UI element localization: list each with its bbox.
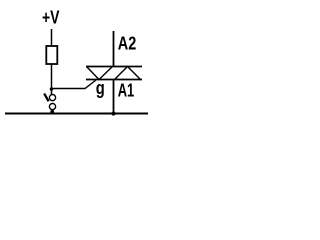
svg-text:g: g [96, 78, 105, 98]
svg-text:+V: +V [42, 7, 60, 27]
svg-text:A1: A1 [118, 81, 135, 101]
svg-text:A2: A2 [118, 33, 137, 53]
